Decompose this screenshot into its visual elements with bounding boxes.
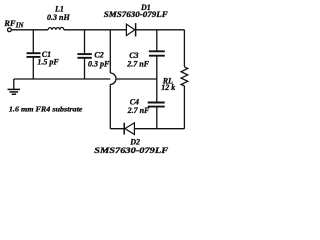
ground <box>8 79 21 94</box>
wire C3/C4 branch <box>156 30 158 129</box>
wire hop (vertical jumps ground rail) <box>110 73 116 84</box>
svg-text:0.3 pF: 0.3 pF <box>88 60 110 69</box>
svg-text:C2: C2 <box>94 50 103 59</box>
svg-text:12 k: 12 k <box>161 83 175 92</box>
svg-text:2.7 nF: 2.7 nF <box>126 60 149 69</box>
svg-text:IN: IN <box>15 22 25 30</box>
wire C2 branch <box>84 30 86 79</box>
diode D1 <box>126 23 135 36</box>
capacitor C2 <box>77 54 91 58</box>
svg-text:SMS7630-079LF: SMS7630-079LF <box>94 146 169 155</box>
svg-text:1.5 pF: 1.5 pF <box>37 58 59 67</box>
inductor L1 <box>48 27 64 29</box>
wire ground rail <box>14 78 157 80</box>
capacitor C3 <box>149 51 165 55</box>
svg-text:C3: C3 <box>129 51 138 60</box>
svg-text:RF: RF <box>3 18 16 28</box>
wire bottom rail <box>110 128 184 130</box>
svg-text:0.3 nH: 0.3 nH <box>47 13 70 22</box>
node RF_IN terminal <box>7 28 11 32</box>
diode D2 <box>124 123 134 135</box>
resistor RL <box>181 67 188 86</box>
wire node A drop <box>109 30 111 129</box>
wire right rail <box>183 30 185 129</box>
svg-text:1.6 mm FR4 substrate: 1.6 mm FR4 substrate <box>9 104 83 113</box>
capacitor C4 <box>148 103 165 107</box>
wire top rail <box>11 29 184 31</box>
label RF_IN <box>3 18 24 30</box>
svg-text:SMS7630-079LF: SMS7630-079LF <box>104 10 169 19</box>
svg-text:2.7 nF: 2.7 nF <box>127 106 150 115</box>
capacitor C1 <box>27 53 41 57</box>
wire C1 branch <box>32 30 34 79</box>
